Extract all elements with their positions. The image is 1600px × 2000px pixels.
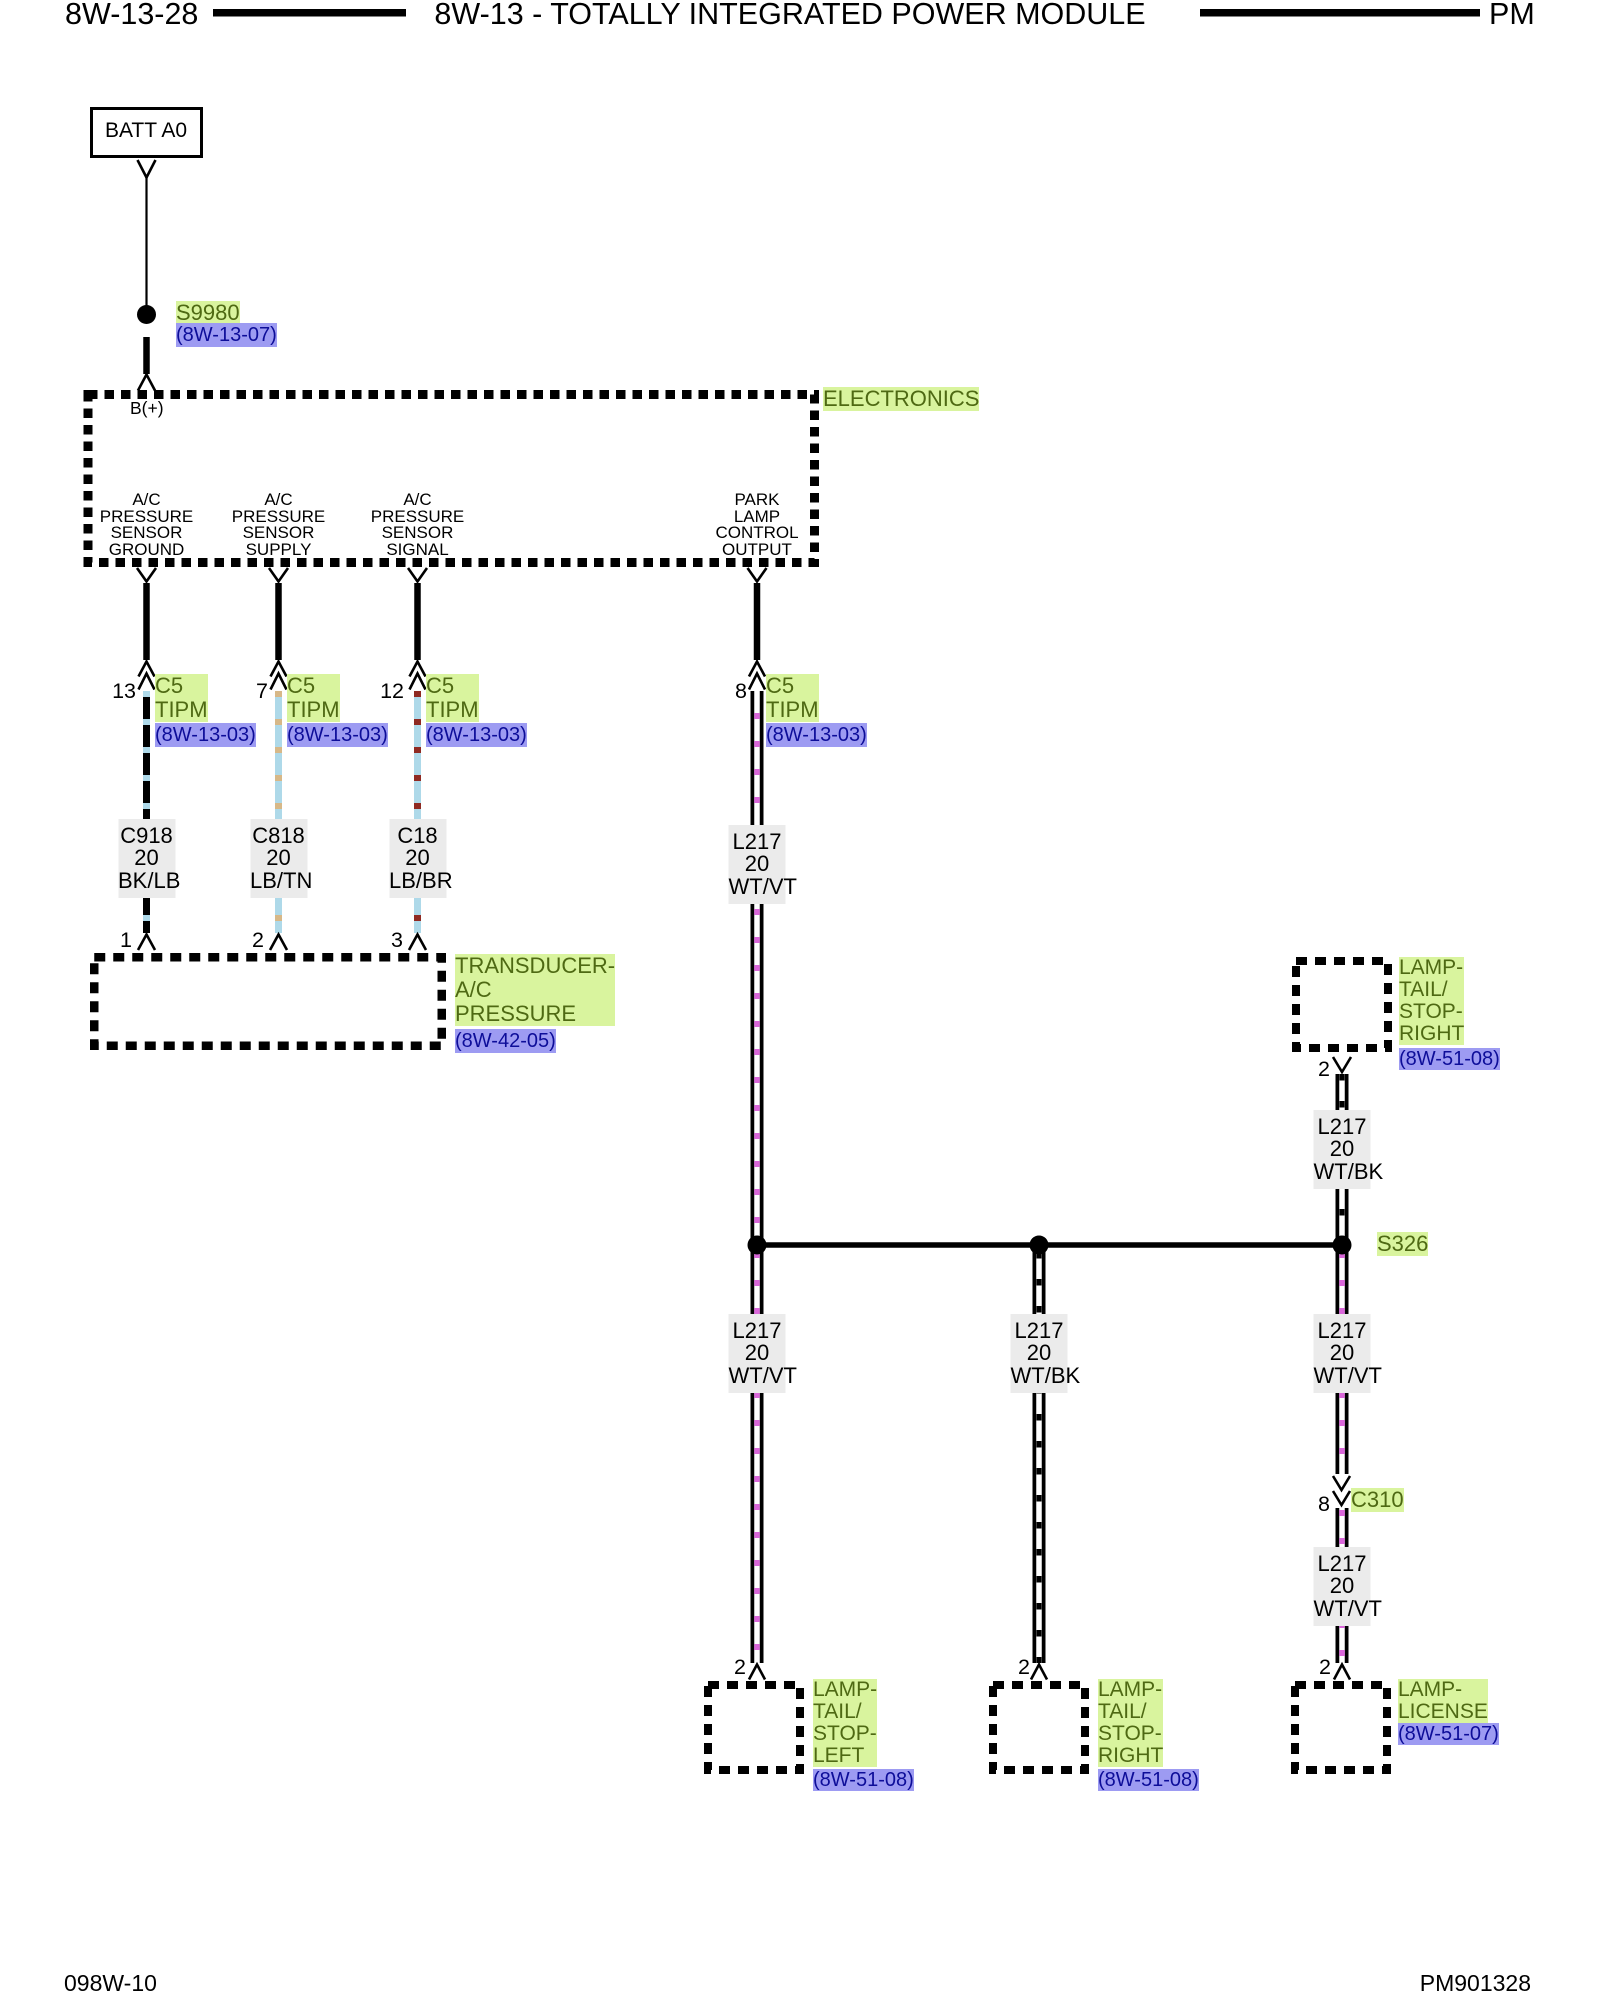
connector V below BATT A0 [138,160,156,178]
wire BATT A0 to splice S9980 [145,178,147,307]
header title [434,0,1145,29]
label ELECTRONICS [823,387,979,411]
wire L217 20 WT/VT S326 to lamp tail stop left [751,1245,764,1663]
pin number 12 [380,680,404,702]
port label A/C pressure sensor supply [232,492,326,558]
label TRANSDUCER-A/C PRESSURE [455,954,615,1026]
footer sheet number [64,1972,157,1995]
connector label C5 TIPM (col 4) [766,674,819,722]
internal wire A/C pressure sensor supply [275,583,282,660]
connector pin 2 chevron lamp tail stop left [749,1665,765,1680]
reference 8W-42-05 [455,1029,556,1053]
pin number 2 right lamp upper [1318,1058,1330,1080]
wire L217 20 WT/VT S326 to C310 [1336,1245,1349,1474]
connector pin 2 V below right lamp box [1333,1057,1351,1072]
TRANSDUCER A/C PRESSURE dashed box [94,957,442,1046]
label LAMP-TAIL/STOP-RIGHT lower [1098,1679,1163,1767]
wire C18 20 LB/BR (light blue, dark red tracer) [414,691,421,933]
connector C5 pin 13 double chevron [139,662,155,690]
pin number 2 lamp license [1319,1656,1331,1678]
connector C5 pin 12 double chevron [410,662,426,690]
internal wire A/C pressure sensor signal [414,583,421,660]
junction dot S326 left [748,1236,767,1255]
pin number 1 [120,929,132,951]
port label park lamp control output [715,492,798,558]
label LAMP-TAIL/STOP-LEFT [813,1679,877,1767]
splice bus S326 [757,1242,1342,1248]
wire L217 20 WT/VT C310 to lamp license [1336,1508,1349,1663]
label S9980 [176,301,240,325]
label C310 [1351,1488,1404,1512]
wire label L217 20 WT/VT (right below C310) [1314,1547,1371,1626]
pin number 8 C310 [1318,1493,1330,1515]
wire label L217 20 WT/BK (upper right) [1314,1110,1371,1189]
wire label L217 20 WT/VT (upper) [729,825,786,904]
battery feed box BATT A0 [92,109,202,157]
reference 8W-51-08 lower left [813,1769,914,1791]
footer document number [1420,1972,1531,1995]
pin number 2 transducer [252,929,264,951]
pin number 2 lamp tail stop right lower [1018,1656,1030,1678]
port chevron V A/C pressure sensor supply [269,568,288,582]
pin number 7 [256,680,268,702]
header rule left [213,9,406,17]
wire label L217 20 WT/VT (right above C310) [1314,1314,1371,1393]
internal wire park lamp control output [754,583,761,660]
connector C5 pin 7 double chevron [271,662,287,690]
header section code PM [1489,0,1535,29]
wire label C818 20 LB/TN [250,819,307,898]
internal wire A/C pressure sensor ground [143,583,150,660]
wire L217 20 WT/VT from C5 to S326 (white, violet tracer) [751,691,764,1245]
wire L217 20 WT/BK right lamp to S326 (white, black tracer) [1336,1074,1349,1245]
wire label L217 20 WT/BK (lower middle) [1011,1314,1068,1393]
connector C5 pin 8 double chevron [749,662,765,690]
port label A/C pressure sensor ground [100,492,194,558]
reference 8W-13-03 (col 1) [155,723,256,747]
wire C918 20 BK/LB (black, light-blue tracer) [143,691,150,933]
connector pin 2 chevron lamp tail stop right [1031,1665,1047,1680]
TIPM ELECTRONICS module dashed box [88,395,815,563]
reference 8W-51-08 lower right [1098,1769,1199,1791]
connector label C5 TIPM (col 1) [155,674,208,722]
connector pin chevron B(+) [138,375,155,391]
wire label C918 20 BK/LB [118,819,175,898]
port label A/C pressure sensor signal [371,492,465,558]
wire label C18 20 LB/BR [389,819,446,898]
connector pin 1 chevron transducer [138,935,155,951]
label S326 [1377,1232,1428,1256]
label LAMP-TAIL/STOP-RIGHT upper [1399,957,1464,1045]
label LAMP-LICENSE [1398,1679,1488,1723]
wire label L217 20 WT/VT (lower left) [729,1314,786,1393]
reference 8W-51-08 upper right [1399,1048,1500,1070]
BATT A0 box label [105,120,187,141]
port chevron V A/C pressure sensor ground [137,568,156,582]
connector pin 2 chevron transducer [270,935,287,951]
pin number 8 [735,680,747,702]
connector pin 3 chevron transducer [409,935,426,951]
LAMP-TAIL/STOP-RIGHT upper dashed box [1296,961,1388,1048]
LAMP-LICENSE dashed box [1295,1685,1387,1770]
reference 8W-51-07 [1398,1723,1499,1745]
port chevron V park lamp control output [748,568,767,582]
LAMP-TAIL/STOP-LEFT dashed box [708,1685,800,1770]
connector label C5 TIPM (col 2) [287,674,340,722]
header page number [65,0,198,29]
reference 8W-13-03 (col 3) [426,723,527,747]
reference 8W-13-07 [176,323,277,347]
reference 8W-13-03 (col 2) [287,723,388,747]
connector pin 2 chevron lamp license [1334,1665,1350,1680]
splice S9980 [137,305,156,324]
wire C818 20 LB/TN (light blue, tan tracer) [275,691,282,933]
junction dot S326 middle [1030,1236,1049,1255]
wire L217 20 WT/BK S326 to lamp tail stop right [1033,1245,1046,1663]
pin label B(+) [130,399,164,417]
pin number 2 lamp tail stop left [734,1656,746,1678]
wire S9980 to TIPM B(+) [143,337,150,374]
reference 8W-13-03 (col 4) [766,723,867,747]
pin number 13 [112,680,136,702]
connector label C5 TIPM (col 3) [426,674,479,722]
pin number 3 transducer [391,929,403,951]
LAMP-TAIL/STOP-RIGHT lower dashed box [993,1685,1085,1770]
header rule right [1200,9,1480,17]
port chevron V A/C pressure sensor signal [408,568,427,582]
connector C310 pin 8 double V [1333,1476,1350,1505]
junction dot S326 right [1333,1236,1352,1255]
